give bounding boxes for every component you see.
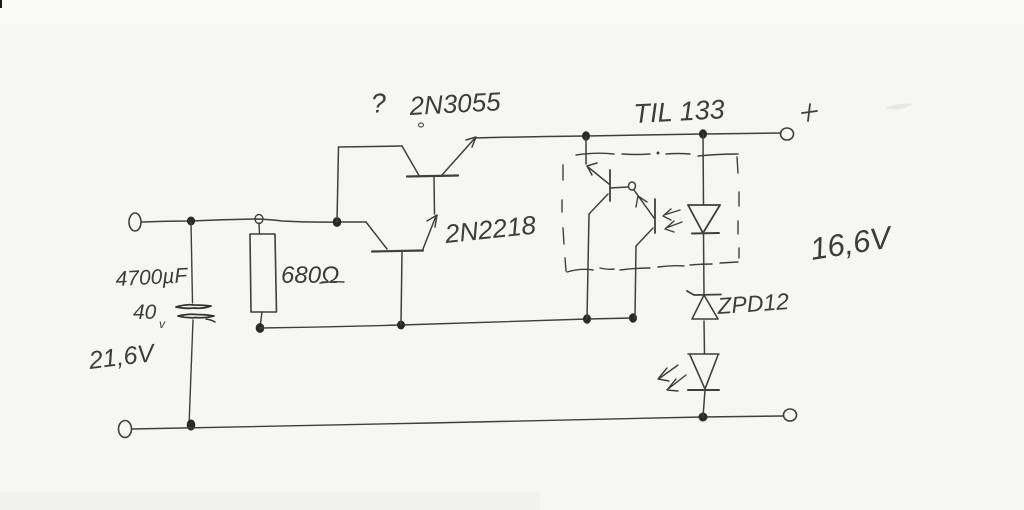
wire capacitor branch top: [191, 222, 193, 303]
stray mark: [419, 123, 424, 127]
corner mark: [0, 0, 2, 8]
wire middle rail: [260, 318, 633, 328]
terminal output plus: [781, 128, 794, 140]
wire collector top horizontal: [339, 146, 403, 147]
svg-text:40: 40: [133, 301, 157, 324]
optocoupler phototransistor T1 collector lead: [585, 137, 587, 164]
phototransistor bar1: [609, 170, 611, 201]
light arrows D3: [658, 365, 678, 381]
svg-text:680Ω: 680Ω: [281, 262, 339, 289]
input terminal (top-left): [129, 213, 141, 231]
wire input line: [142, 219, 366, 222]
wire resistor top lead: [258, 223, 261, 234]
node opto internal: [629, 182, 636, 190]
wire collector riser: [337, 147, 339, 222]
node resistor top circle: [255, 215, 263, 224]
faint smudge: [885, 104, 913, 110]
zener D2 ZPD12: [687, 291, 721, 295]
terminal bottom-right: [784, 409, 797, 421]
diode D3 (LED): [688, 353, 719, 355]
node 2N3055 collector junction: [333, 218, 341, 227]
svg-text:ZPD12: ZPD12: [716, 288, 790, 319]
wire top rail: [475, 133, 781, 138]
opto LED D1: [688, 204, 720, 206]
svg-text:4700µF: 4700µF: [115, 264, 189, 291]
diagonal to bar2 with arrow: [634, 190, 654, 218]
terminal bottom-left: [119, 421, 132, 438]
phototransistor bar2: [654, 199, 656, 233]
wire led chain vertical: [703, 134, 705, 417]
wire bar1 emitter lead: [587, 194, 608, 319]
optocoupler U1 dash-dot box: [562, 152, 739, 272]
svg-text:TIL 133: TIL 133: [633, 94, 726, 129]
svg-text:v: v: [159, 317, 166, 331]
node input junction: [187, 217, 194, 225]
node bottom diode junction: [699, 413, 707, 421]
transistor Q1 base bar: [407, 176, 458, 177]
node middle rail opto e2: [630, 314, 637, 322]
wire bar1 to base dot: [610, 187, 628, 188]
node middle rail opto e1: [584, 315, 591, 323]
wire resistor bottom lead: [260, 312, 262, 327]
label +: [802, 104, 817, 121]
node top rail opto: [583, 132, 590, 140]
transistor Q2 base bar: [372, 251, 423, 252]
light arrows: [663, 209, 680, 220]
svg-text:2N3055: 2N3055: [408, 86, 502, 121]
svg-text:?: ?: [370, 88, 388, 119]
wire bottom rail: [132, 416, 783, 429]
node top rail led chain: [700, 130, 707, 138]
transistor Q2 2N2218 collector diagonal: [366, 222, 387, 249]
wire Q2 base down: [401, 252, 402, 326]
transistor Q1 emitter with arrow: [442, 138, 475, 175]
resistor R1 body: [250, 234, 277, 312]
wire Q1 base down: [433, 177, 436, 215]
capacitor C1 plates: [176, 305, 211, 309]
node middle rail T1 base: [398, 321, 405, 329]
node bottom-left junction: [187, 420, 195, 430]
transistor Q2 emitter with arrow: [423, 216, 436, 249]
wire capacitor branch bottom: [189, 320, 193, 426]
wire bar2 emitter lead: [635, 228, 653, 318]
node resistor bottom: [256, 324, 264, 333]
arrowhead into junction: [587, 163, 597, 175]
transistor Q1 2N3055 collector diagonal: [402, 146, 419, 176]
